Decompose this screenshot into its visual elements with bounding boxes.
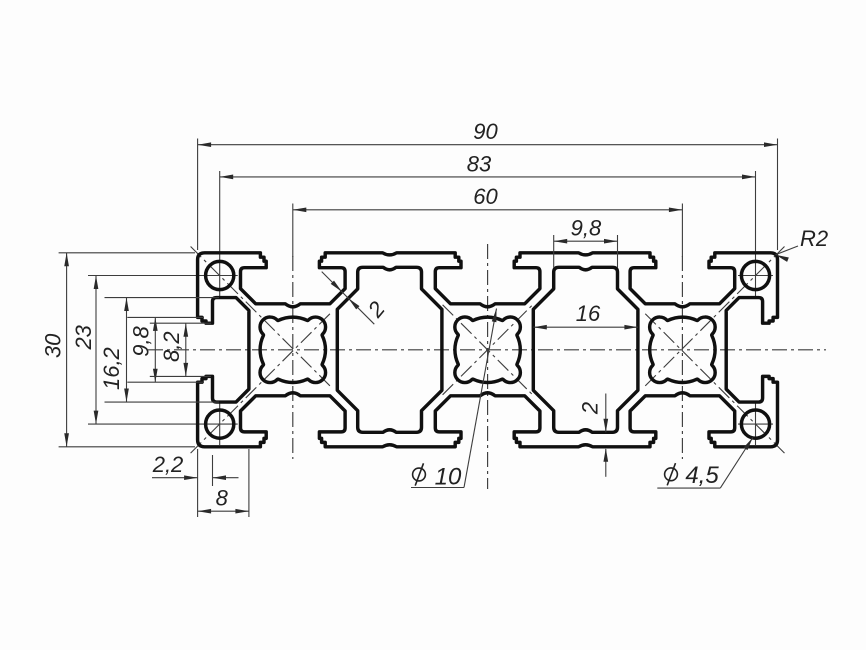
- svg-text:16: 16: [576, 301, 601, 326]
- diagonal centerline bottom-left: [191, 313, 331, 453]
- horizontal centerline: [148, 349, 826, 351]
- diagonal centerlines middle cavity: [443, 305, 533, 395]
- centerline bottom-left hole horizontal: [88, 423, 238, 425]
- dimension diameter 4,5 leader: [657, 487, 720, 489]
- dimension 90: [197, 139, 199, 251]
- diagonal centerline top-right: [644, 247, 784, 387]
- centerline top-left hole horizontal: [88, 275, 238, 277]
- svg-text:30: 30: [41, 333, 66, 358]
- left clover cavity: [260, 317, 326, 383]
- svg-text:10: 10: [435, 464, 462, 491]
- dimension 16: [533, 326, 638, 328]
- vertical centerline left cavity: [292, 256, 294, 459]
- diagonal centerline bottom-right: [644, 313, 784, 453]
- svg-text:90: 90: [473, 119, 498, 144]
- dimension 9,8 top: [553, 235, 555, 268]
- dimension 8,2: [150, 322, 211, 324]
- centerline bottom-left hole vertical: [219, 403, 221, 445]
- dimension 60: [292, 204, 294, 258]
- left inter-cavity slot: [337, 267, 442, 432]
- dimension 8: [248, 449, 250, 517]
- svg-text:4,5: 4,5: [685, 462, 719, 489]
- svg-text:8,2: 8,2: [159, 331, 184, 362]
- dimension 16,2: [105, 297, 220, 299]
- dimension 2 diagonal web: [322, 272, 375, 325]
- dimension R2 leader: [775, 246, 798, 255]
- dimension 83: [220, 176, 756, 178]
- svg-text:23: 23: [71, 324, 96, 350]
- centerline top-right hole vertical: [755, 171, 757, 297]
- centerline bottom-right hole vertical: [755, 403, 757, 445]
- dimension 2,2: [197, 449, 199, 517]
- svg-text:9,8: 9,8: [571, 216, 602, 241]
- svg-text:8: 8: [216, 486, 229, 511]
- centerline top-left hole vertical: [219, 171, 221, 297]
- dimension 2 bottom web: [605, 394, 607, 433]
- centerline top-right hole horizontal: [738, 275, 773, 277]
- centerline bottom-right hole horizontal: [738, 423, 773, 425]
- right clover cavity: [650, 317, 716, 383]
- vertical centerline right cavity: [681, 256, 683, 459]
- top-left hole: [206, 261, 234, 289]
- diameter symbol 4,5: [665, 463, 678, 485]
- svg-text:16,2: 16,2: [99, 347, 124, 390]
- vertical centerline middle cavity: [487, 244, 489, 489]
- bottom-left hole: [206, 410, 234, 438]
- middle clover cavity: [455, 317, 521, 383]
- svg-text:60: 60: [473, 184, 498, 209]
- diameter symbol: [413, 463, 426, 485]
- bottom-right hole: [741, 410, 769, 438]
- diagonal centerline top-left: [191, 247, 331, 387]
- dimension 9,8 left: [127, 316, 204, 318]
- dimension 30: [59, 252, 195, 254]
- svg-text:2,2: 2,2: [152, 452, 184, 477]
- right inter-cavity slot: [533, 267, 638, 432]
- profile outer outline: [198, 253, 778, 447]
- svg-text:R2: R2: [800, 226, 828, 251]
- top-right hole: [741, 261, 769, 289]
- svg-text:83: 83: [467, 151, 492, 176]
- svg-text:2: 2: [578, 402, 603, 415]
- svg-text:9,8: 9,8: [129, 325, 154, 356]
- dimension diameter 10 leader: [411, 487, 464, 489]
- dimension 23: [95, 276, 97, 425]
